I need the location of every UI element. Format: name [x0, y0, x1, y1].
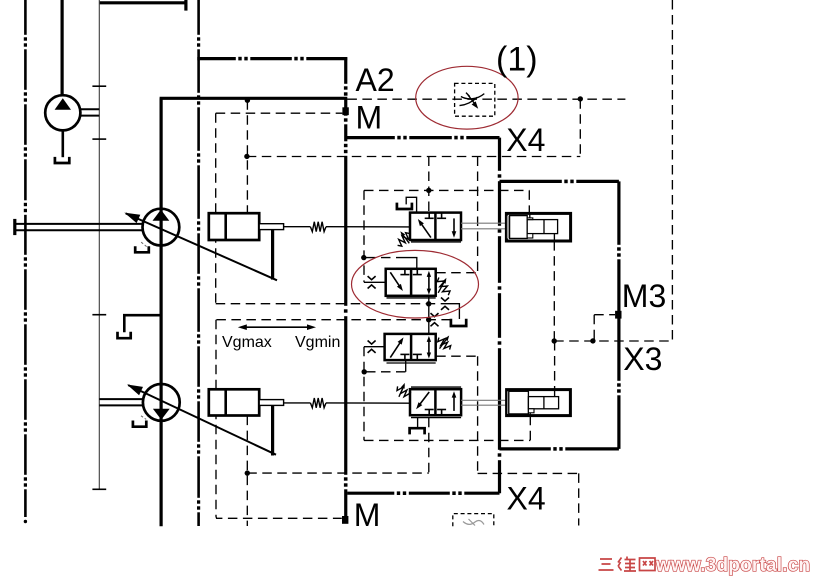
- node M3 link: [590, 338, 595, 343]
- valve V2 blocked ports: [400, 269, 421, 275]
- enclosure boundary left: [24, 0, 28, 523]
- tank T6 centre: [451, 319, 466, 326]
- label Vgmin: [295, 334, 340, 351]
- feedback link servo 2: [271, 405, 274, 456]
- pilot line: drain header lower: [216, 319, 450, 321]
- valve V2 double arrow: [427, 271, 431, 295]
- swashplate arrow pump P2: [127, 385, 276, 455]
- node drain upper: [426, 301, 431, 306]
- tank T5 above valve V1: [397, 197, 417, 213]
- red highlight ellipse around valve V2: [352, 250, 479, 318]
- node pilot row 1: [426, 188, 431, 193]
- label Vgmax: [222, 334, 272, 351]
- svg-text:Vgmax: Vgmax: [222, 334, 272, 351]
- node servo2 tap: [245, 470, 250, 475]
- svg-text:(1): (1): [496, 41, 538, 79]
- spring valve V3: [438, 336, 451, 350]
- wire: top line with plugged port: [99, 0, 186, 11]
- svg-text:www.3dportal.cn: www.3dportal.cn: [655, 555, 810, 576]
- pilot line: valve V3 right to X4 bottom: [436, 356, 477, 473]
- label M top: [356, 100, 383, 136]
- servo cylinder 1: [209, 213, 284, 240]
- node V2 top branch: [361, 255, 366, 260]
- rod valve V1 to shuttle A: [461, 223, 506, 229]
- pump P2 case drain + tank T4: [133, 416, 146, 427]
- valve V4 right-cell arrow up: [452, 391, 457, 411]
- variable pump P2: [143, 384, 180, 421]
- drive shaft with end bar: [15, 219, 143, 235]
- svg-text:X4: X4: [507, 481, 546, 517]
- wire: main vertical flow line through pumps: [160, 98, 163, 526]
- pilot line: servo 2 lower tap: [246, 416, 248, 526]
- dashed enclosure 1: [216, 113, 343, 304]
- block boundary: X4 shelf top: [346, 136, 500, 140]
- label (1): [496, 41, 538, 79]
- pilot line: branch to valve V2 top: [366, 258, 417, 269]
- valve V1 blocked ports: [425, 213, 446, 219]
- node V3 branch: [362, 369, 367, 374]
- node shuttle mid: [552, 338, 557, 343]
- servo cylinder 2: [209, 389, 284, 415]
- pilot line: X4 bottom run: [478, 473, 579, 525]
- boost pump drain line: [61, 130, 64, 157]
- valve V1 left-cell arrow: [418, 219, 431, 238]
- label M bottom: [354, 497, 381, 533]
- svg-text:M3: M3: [622, 278, 666, 314]
- enclosure boundary pump block: [197, 0, 201, 526]
- orifice box bottom: [453, 514, 494, 527]
- block boundary: main port plate vertical: [344, 57, 348, 516]
- swashplate arrow pump P1: [124, 213, 277, 281]
- block boundary: shuttle frame top: [500, 179, 619, 183]
- spring valve V1: [398, 231, 410, 246]
- block boundary: top edge: [197, 57, 347, 61]
- svg-text:M: M: [356, 100, 383, 136]
- shuttle spool A: [506, 213, 570, 241]
- block boundary: shuttle frame bottom: [500, 447, 619, 451]
- block boundary: right plate vertical: [497, 138, 501, 494]
- label X3: [623, 341, 662, 377]
- port M top: [342, 107, 348, 115]
- valve V4 left-cell arrow: [416, 392, 429, 409]
- variable pump P1: [143, 209, 180, 246]
- label X4 bottom: [507, 481, 546, 517]
- spring servo 2: [284, 398, 410, 408]
- pilot line: X3 riser to top edge: [671, 0, 673, 341]
- tank T7 below valve V4: [410, 418, 425, 435]
- valve V4 body: [410, 387, 461, 418]
- pilot line: branch valve V3 left: [363, 347, 365, 441]
- wire: V2 to V3 spool link: [428, 296, 430, 334]
- svg-text:Vgmin: Vgmin: [295, 334, 340, 351]
- wire: suction line to boost pump: [60, 0, 63, 96]
- pilot line: branch to valve V2 left: [363, 190, 365, 282]
- spring servo 1: [284, 222, 410, 232]
- spring valve V2: [437, 278, 450, 296]
- valve V1 right-cell arrow down: [452, 218, 457, 237]
- svg-text:A2: A2: [356, 62, 395, 98]
- block boundary: shuttle frame right: [617, 181, 621, 449]
- tank T1: [55, 157, 69, 163]
- valve V3 left-cell arrow: [390, 337, 403, 357]
- spring valve V4: [397, 383, 410, 397]
- pilot line: drain header upper: [216, 304, 460, 319]
- pilot line: valve V3 bottom port: [366, 360, 406, 372]
- pilot line: X4 to valve V2 right side: [436, 157, 477, 273]
- feedback link servo 1: [271, 229, 274, 279]
- valve V4 blocked ports: [425, 410, 446, 416]
- orifice on upper drain: [441, 298, 449, 310]
- valve V2 left-cell arrow: [390, 272, 403, 291]
- svg-text:X3: X3: [623, 341, 662, 377]
- orifice on lower drain: [431, 313, 439, 326]
- valve V2 body: [386, 269, 436, 298]
- pilot line: gauge port network y=99: [347, 98, 625, 100]
- valve V3 body: [385, 334, 436, 363]
- pilot line: X4 top network: [247, 99, 581, 156]
- node X4 top: [578, 96, 583, 101]
- wire: port A2 pressure line: [160, 97, 348, 100]
- boost pump case line: [80, 109, 99, 115]
- watermark 3dportal: [599, 555, 811, 576]
- pump P1 case drain + tank T2: [135, 242, 149, 252]
- svg-text:M: M: [354, 497, 381, 533]
- pilot line: bottom port M row: [247, 418, 428, 473]
- pilot line: A2 tap to servo 1: [246, 100, 248, 213]
- port M3: [615, 311, 621, 319]
- pilot line: port M3 link: [594, 315, 615, 341]
- pilot line: valve V1 row to shuttle A: [364, 190, 529, 213]
- pilot line: shuttle B to valve V4 row: [364, 416, 530, 441]
- red highlight ellipse (1): [416, 66, 518, 129]
- node A2 tap: [245, 98, 250, 103]
- valve V2 port line with orifice: [364, 276, 386, 288]
- drive shaft through-line: [92, 0, 106, 489]
- pilot line: node to X3: [554, 340, 672, 342]
- shuttle spool B: [507, 390, 571, 416]
- label X4 top: [506, 122, 545, 158]
- valve V1 body: [410, 213, 461, 242]
- boost pump B: [45, 95, 80, 130]
- orifice (1) in dashed box: [455, 83, 495, 116]
- node drain lower: [426, 317, 431, 322]
- svg-text:X4: X4: [506, 122, 545, 158]
- rod valve V4 to shuttle B: [461, 400, 507, 405]
- Vg adjustment double arrow: [238, 324, 316, 330]
- valve V3 port line with orifice: [364, 341, 385, 353]
- valve V3 blocked ports: [400, 354, 421, 360]
- pilot line: shuttle A to M3/X3 node: [553, 241, 555, 341]
- label A2: [356, 62, 395, 98]
- shaft link pump 2: [99, 399, 143, 405]
- node X4 tap: [244, 154, 249, 159]
- drain branch to tank T3: [118, 315, 162, 338]
- port M bottom: [342, 516, 348, 524]
- valve V3 double arrow: [427, 336, 431, 359]
- dashed enclosure 2: [216, 320, 342, 519]
- block boundary: X4 shelf bottom: [347, 491, 499, 495]
- pilot line: to valve V1 top: [428, 157, 430, 213]
- pilot line: node to shuttle B top: [554, 341, 556, 390]
- label M3: [622, 278, 666, 314]
